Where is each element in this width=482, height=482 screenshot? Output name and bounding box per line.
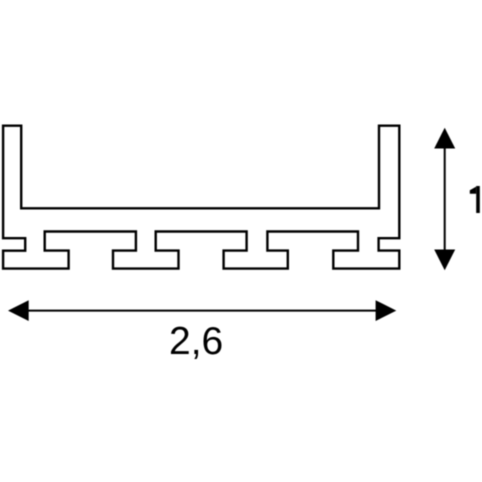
horizontal dimension line	[26, 310, 377, 312]
dimension label 2,6	[169, 322, 223, 361]
horizontal dimension arrowhead right	[376, 300, 397, 321]
horizontal dimension arrowhead left	[8, 300, 29, 321]
profile cross-section outline	[3, 126, 399, 269]
vertical dimension line	[444, 146, 446, 252]
vertical dimension arrowhead top	[434, 128, 455, 149]
vertical dimension arrowhead bottom	[434, 250, 455, 271]
dimension label 1 (drawn glyph)	[470, 186, 480, 213]
